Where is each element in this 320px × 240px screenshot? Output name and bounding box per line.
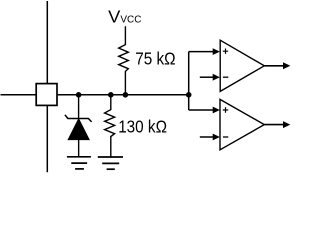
wire: branch vertical to comparators [188, 52, 190, 110]
arrowhead into U2 - input [213, 134, 220, 141]
ground (130k resistor) [98, 157, 123, 169]
arrowhead into U1 - input [213, 74, 220, 81]
wire: left vertical bus line [46, 1, 48, 172]
wire: comparator U1 + input [189, 51, 214, 53]
node: junction dot at 75k resistor [123, 92, 129, 98]
svg-text:V: V [108, 7, 120, 27]
svg-text:75 kΩ: 75 kΩ [135, 49, 175, 69]
wire: comparator U2 + input [189, 109, 214, 111]
svg-text:VCC: VCC [120, 15, 141, 26]
resistor R 75k [119, 26, 129, 95]
node: junction dot at diode [76, 92, 82, 98]
arrowhead U1 output [283, 62, 290, 69]
node: junction dot at comparator branch [186, 92, 192, 98]
connector box (I/O pin) [36, 84, 57, 106]
label Vvcc [108, 7, 142, 27]
wire: comparator U2 - input [200, 136, 214, 138]
zener diode D1 [65, 95, 92, 157]
svg-text:130 kΩ: 130 kΩ [118, 116, 167, 136]
arrowhead into U1 + input [213, 48, 220, 55]
resistor R 130k [105, 95, 115, 157]
op-amp U1 (comparator, top) [220, 40, 264, 91]
wire: U1 output [264, 65, 284, 67]
wire: main horizontal net [1, 94, 189, 96]
wire: comparator U1 - input [200, 76, 214, 78]
ground (diode) [67, 157, 91, 169]
arrowhead U2 output [283, 121, 290, 128]
op-amp U2 (comparator, bottom) [220, 99, 264, 149]
wire: U2 output [264, 124, 284, 126]
arrowhead into U2 + input [213, 107, 220, 114]
node: junction dot at 130k resistor [108, 92, 114, 98]
